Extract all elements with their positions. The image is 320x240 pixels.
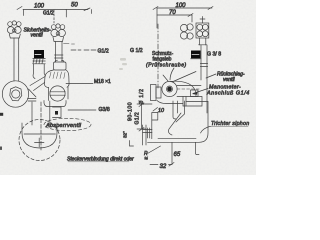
safety valve handwheel cluster 1 (7, 21, 21, 38)
small bracket with dot (53, 107, 62, 118)
dim right ticks (153, 7, 213, 10)
body bottom outline (157, 101, 183, 104)
valve egg body (171, 81, 197, 96)
bracket dot (55, 111, 58, 115)
siphon box body (148, 102, 209, 143)
svg-text:ventil: ventil (31, 33, 44, 39)
drain tail (196, 142, 200, 154)
valve circle (162, 81, 177, 96)
downpipe to funnel cup (32, 101, 50, 125)
dim 70 right hook (188, 14, 193, 23)
svg-text:G3/8: G3/8 (99, 107, 110, 113)
left edge scan tick 2 (0, 147, 2, 150)
plug slot (50, 92, 66, 95)
riser union band (200, 64, 207, 67)
trichter leader curve (201, 126, 211, 133)
svg-text:32°: 32° (123, 131, 128, 138)
black knob (right view) (191, 51, 201, 59)
riser pipe from handwheel 1 (14, 38, 19, 81)
svg-text:90-100: 90-100 (128, 102, 134, 121)
svg-text:G 1/2: G 1/2 (130, 48, 143, 54)
left big union nut circle (2, 81, 28, 107)
leader dashes to G1/2 mid (71, 49, 96, 51)
funnel cup front view (22, 123, 57, 148)
dim 100 left tick (17, 7, 22, 10)
svg-text:G 3/ 8: G 3/ 8 (207, 52, 221, 58)
dashed drop to valve 2 (53, 10, 55, 23)
svg-text:Anschluß G1/4: Anschluß G1/4 (206, 91, 250, 97)
rückschlag leader (206, 74, 216, 78)
svg-text:50: 50 (71, 3, 78, 9)
cup rim line (24, 133, 56, 135)
svg-text:(Prüfschraube): (Prüfschraube) (146, 63, 187, 69)
hex nut inside (10, 87, 22, 101)
dim 50 right tick (84, 8, 92, 14)
siphon box (152, 113, 158, 139)
stub hatch (148, 128, 150, 138)
svg-text:G1/2: G1/2 (43, 11, 54, 17)
dim 32 line (150, 163, 174, 167)
central valve housing outline (45, 70, 70, 88)
shutoff valve black knob (left view) (34, 50, 44, 58)
absperr dashed oval (44, 118, 91, 130)
dim 70 line (157, 14, 192, 16)
spout to union (30, 77, 45, 91)
vertical dim 90-100 (141, 104, 143, 129)
inlet stub left (143, 125, 153, 145)
pipe below handwheel 2 (56, 42, 63, 63)
svg-text:Trichter siphon: Trichter siphon (211, 121, 249, 127)
scan smudge (119, 58, 127, 70)
top leaders on valve (163, 72, 196, 83)
inner diagonal (168, 113, 181, 135)
dim corner mark (130, 141, 134, 147)
knob valve body sides (33, 64, 46, 79)
leader M18x1 (66, 83, 93, 85)
left edge scan tick 1 (0, 113, 3, 116)
svg-text:Ø 1/2: Ø 1/2 (139, 88, 145, 104)
inner circle (12, 90, 20, 98)
dim 100 left hook (23, 10, 25, 16)
dimension 50 line (66, 9, 88, 11)
downpipe dashed centerline (40, 102, 42, 150)
leader dashes after ventil (64, 43, 75, 46)
four circles in box (197, 24, 208, 36)
manometer stub box (191, 90, 199, 97)
horizontal pipe to riser (177, 86, 201, 97)
svg-text:ventil: ventil (223, 77, 236, 83)
valve dark center (167, 87, 172, 92)
valve circle inner (167, 86, 173, 92)
knob base line (191, 58, 202, 60)
safety valve handwheel cluster 2 (51, 24, 66, 42)
base cup under valve (44, 101, 66, 107)
svg-text:G1/2: G1/2 (135, 112, 141, 125)
box inner line (185, 97, 187, 107)
check valve box (183, 97, 202, 107)
pipe dashed centerline (177, 88, 200, 90)
plug outer boss (49, 87, 69, 100)
knob bonnet hatch (33, 59, 46, 64)
svg-text:100: 100 (34, 4, 45, 10)
cup center cross (35, 138, 45, 147)
funnel cone (176, 101, 185, 122)
leader from schmutzfangsieb (170, 68, 174, 80)
caption underline (68, 161, 129, 163)
collar under pipe (54, 62, 67, 70)
svg-text:M18 ×1: M18 ×1 (94, 79, 111, 85)
housing hatch (50, 72, 66, 79)
stem below box (199, 38, 207, 45)
collar bumps (55, 60, 64, 62)
paper background (0, 0, 256, 175)
rear handwheel circles (180, 24, 193, 39)
dim 100 right line (157, 7, 212, 9)
svg-text:32: 32 (160, 164, 167, 170)
top view handwheel box (196, 23, 209, 38)
tick at 10 (153, 108, 158, 112)
link from circle to body (28, 89, 37, 101)
svg-text:10: 10 (158, 108, 164, 114)
svg-text:65: 65 (174, 152, 181, 158)
svg-text:100: 100 (176, 3, 187, 9)
trichter underline (211, 125, 249, 127)
svg-text:Absperrventil: Absperrventil (45, 123, 82, 129)
dim 100 right hook (65, 10, 67, 18)
right riser pipe (201, 45, 207, 113)
dim ticks (137, 103, 152, 131)
leader G3/8 left (68, 109, 96, 111)
dashed siphon circle (19, 120, 60, 161)
dimension 100 line (23, 9, 66, 11)
funnel outlet pipe (173, 101, 178, 119)
diagonal leader at 65 (148, 146, 161, 154)
drain plug circle M18 (50, 86, 65, 101)
svg-text:70: 70 (169, 10, 176, 16)
svg-text:G1/2: G1/2 (98, 49, 109, 55)
centerline dash-dot (157, 24, 159, 88)
valve body left flange (151, 85, 157, 101)
dim 65 vertical line (171, 142, 173, 164)
paper noise (0, 0, 256, 175)
bonnet joint on pipe 2 (55, 55, 64, 58)
dim left hook (156, 8, 158, 28)
stem above box (200, 17, 205, 24)
manometer leader arrow (193, 89, 208, 94)
box top right line (186, 101, 208, 103)
